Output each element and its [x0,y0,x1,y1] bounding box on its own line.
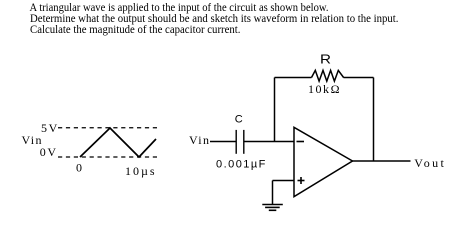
svg-text:Calculate the magnitude of the: Calculate the magnitude of the capacitor… [30,22,241,36]
svg-text:5V: 5V [41,121,58,135]
svg-text:10µs: 10µs [125,164,155,178]
svg-text:0: 0 [76,161,82,175]
svg-text:0V: 0V [40,145,57,159]
svg-text:Vout: Vout [414,156,444,170]
svg-text:Vin: Vin [189,133,209,147]
svg-text:R: R [320,52,331,67]
svg-text:0.001µF: 0.001µF [216,159,266,171]
svg-text:C: C [235,114,243,126]
svg-text:10kΩ: 10kΩ [308,82,340,96]
svg-text:Vin: Vin [22,133,42,147]
